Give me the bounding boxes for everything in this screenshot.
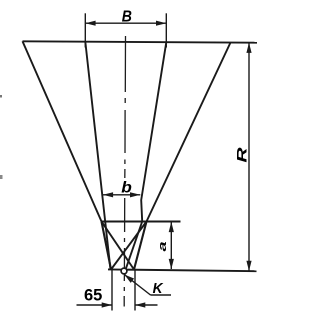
svg-text:a: a — [157, 241, 169, 251]
svg-text:K: K — [153, 280, 164, 297]
svg-text:R: R — [234, 147, 249, 162]
svg-text:65: 65 — [84, 287, 102, 305]
svg-text:b: b — [121, 178, 132, 196]
svg-text:B: B — [122, 7, 132, 25]
